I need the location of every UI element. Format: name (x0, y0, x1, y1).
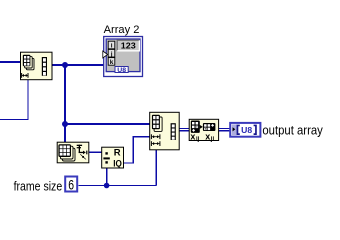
svg-text:Array 2: Array 2 (104, 24, 140, 36)
svg-text:x: x (205, 132, 210, 142)
svg-text:i: i (111, 43, 113, 50)
svg-text:ji: ji (210, 137, 215, 143)
svg-text:x: x (190, 132, 195, 142)
svg-text:k: k (110, 59, 114, 66)
svg-text:R: R (114, 147, 121, 158)
svg-text:U8: U8 (241, 126, 252, 135)
svg-text:U8: U8 (117, 67, 126, 74)
svg-text:ij: ij (196, 137, 200, 143)
svg-text:frame size: frame size (14, 179, 63, 194)
svg-text:6: 6 (68, 177, 74, 193)
svg-text:123: 123 (121, 41, 136, 51)
svg-text:output array: output array (262, 122, 323, 137)
svg-text:j: j (110, 51, 113, 58)
svg-text:IQ: IQ (113, 158, 122, 169)
